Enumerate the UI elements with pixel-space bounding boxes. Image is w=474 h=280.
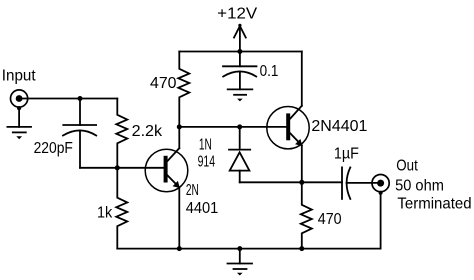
transistor Q2	[267, 52, 309, 183]
node emitter bottom	[177, 246, 182, 251]
connector J1 Input	[11, 90, 28, 110]
svg-text:470: 470	[318, 211, 342, 228]
capacitor C3 1uF	[342, 167, 381, 199]
connector J2 Out	[372, 175, 389, 195]
svg-text:1µF: 1µF	[334, 145, 359, 162]
ground main	[228, 249, 253, 276]
capacitor C2 0.1	[223, 52, 257, 90]
svg-text:470: 470	[150, 75, 177, 92]
node ground bottom	[237, 246, 242, 251]
svg-text:2.2k: 2.2k	[132, 123, 164, 140]
svg-text:1N: 1N	[199, 137, 212, 154]
svg-text:Input: Input	[2, 68, 36, 85]
resistor R4 470	[301, 182, 312, 248]
node +12V rail junction	[237, 49, 242, 54]
resistor R1 2.2k	[116, 99, 127, 168]
node 470 bottom	[299, 246, 304, 251]
svg-text:2N: 2N	[186, 182, 199, 199]
svg-text:+12V: +12V	[217, 6, 257, 23]
wire diode/emitter to cap	[240, 181, 342, 183]
svg-text:220pF: 220pF	[34, 140, 73, 157]
svg-text:Out: Out	[396, 158, 418, 175]
ground 0.1 cap	[228, 89, 253, 101]
wire bottom rail	[117, 248, 380, 250]
svg-text:4401: 4401	[186, 200, 219, 217]
ground input	[7, 127, 31, 139]
wire collector rail to Q2 base	[179, 126, 286, 128]
node emitter junction	[299, 180, 304, 185]
node Q1 collector junction	[177, 124, 182, 129]
svg-text:0.1: 0.1	[260, 63, 279, 80]
svg-text:1k: 1k	[97, 205, 113, 222]
wire 220pF to junction	[80, 167, 117, 169]
svg-text:914: 914	[198, 154, 216, 171]
node input/cap junction	[78, 96, 83, 101]
svg-text:50 ohm: 50 ohm	[395, 177, 444, 194]
wire junction to Q1 base	[117, 167, 163, 169]
capacitor C1 220pF	[63, 99, 96, 168]
svg-text:Terminated: Terminated	[397, 195, 471, 212]
resistor R2 1k	[116, 168, 127, 249]
wire input connector to ground	[18, 108, 20, 127]
svg-text:2N4401: 2N4401	[311, 118, 367, 135]
wire input to 2.2k corner	[19, 98, 117, 100]
wire out connector down	[380, 193, 382, 249]
node base divider junction	[115, 165, 120, 170]
wire top rail	[179, 51, 301, 53]
node diode top junction	[237, 124, 242, 129]
diode D1 1N914	[229, 127, 250, 182]
resistor R3 470	[178, 52, 189, 127]
transistor Q1	[145, 127, 188, 249]
power +12V	[234, 24, 246, 52]
